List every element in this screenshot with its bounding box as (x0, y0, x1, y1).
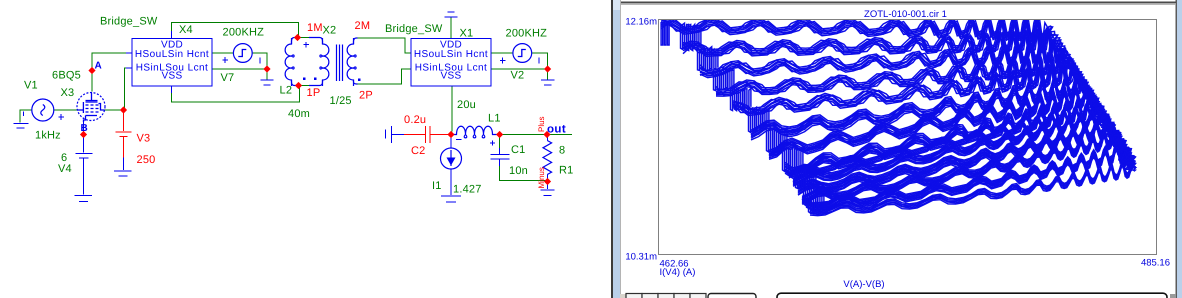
svg-text:0.2u: 0.2u (404, 114, 426, 126)
svg-text:6BQ5: 6BQ5 (52, 69, 81, 81)
svg-text:V7: V7 (221, 72, 235, 84)
svg-text:40m: 40m (288, 108, 310, 120)
svg-text:V4: V4 (58, 163, 72, 175)
svg-text:ZOTL-010-001.cir 1: ZOTL-010-001.cir 1 (864, 9, 947, 20)
svg-text:L1: L1 (488, 112, 501, 124)
svg-text:L2: L2 (280, 84, 293, 96)
svg-text:HSouLSin Hcnt: HSouLSin Hcnt (135, 49, 209, 60)
svg-text:out: out (547, 123, 566, 135)
svg-text:X3: X3 (61, 87, 75, 99)
svg-text:V3: V3 (137, 133, 151, 145)
svg-text:12.16m: 12.16m (625, 16, 657, 27)
svg-text:2M: 2M (355, 20, 371, 32)
svg-text:B: B (81, 123, 88, 134)
svg-text:20u: 20u (457, 99, 476, 111)
svg-text:I(V4) (A): I(V4) (A) (660, 267, 696, 278)
svg-text:Plus: Plus (537, 116, 546, 132)
svg-text:200KHZ: 200KHZ (223, 27, 265, 39)
svg-text:X2: X2 (323, 24, 337, 36)
svg-text:HSouLSin Hcnt: HSouLSin Hcnt (414, 49, 488, 60)
svg-text:200KHZ: 200KHZ (506, 27, 548, 39)
svg-text:R1: R1 (559, 164, 573, 176)
svg-text:VSS: VSS (441, 71, 462, 82)
svg-text:V1: V1 (24, 79, 38, 91)
svg-text:C1: C1 (511, 144, 525, 156)
svg-text:1.427: 1.427 (453, 183, 482, 195)
svg-text:1/25: 1/25 (330, 95, 352, 107)
svg-text:V(A)-V(B): V(A)-V(B) (843, 279, 884, 290)
svg-text:Bridge_SW: Bridge_SW (385, 23, 443, 35)
svg-text:1M: 1M (307, 22, 323, 34)
svg-text:C2: C2 (411, 145, 425, 157)
svg-text:8: 8 (559, 144, 565, 156)
svg-text:1kHz: 1kHz (35, 130, 61, 142)
svg-text:I1: I1 (432, 180, 442, 192)
svg-text:Minus: Minus (537, 167, 546, 188)
svg-text:2P: 2P (359, 90, 373, 102)
svg-text:10n: 10n (509, 165, 528, 177)
svg-text:X1: X1 (460, 27, 474, 39)
svg-text:485.16: 485.16 (1141, 257, 1170, 268)
svg-text:1P: 1P (307, 87, 321, 99)
svg-text:V2: V2 (511, 69, 525, 81)
svg-text:Bridge_SW: Bridge_SW (100, 15, 158, 27)
svg-text:A: A (95, 60, 102, 71)
svg-text:X4: X4 (179, 24, 193, 36)
svg-text:250: 250 (137, 154, 156, 166)
svg-text:VSS: VSS (162, 71, 183, 82)
svg-text:10.31m: 10.31m (625, 252, 657, 263)
